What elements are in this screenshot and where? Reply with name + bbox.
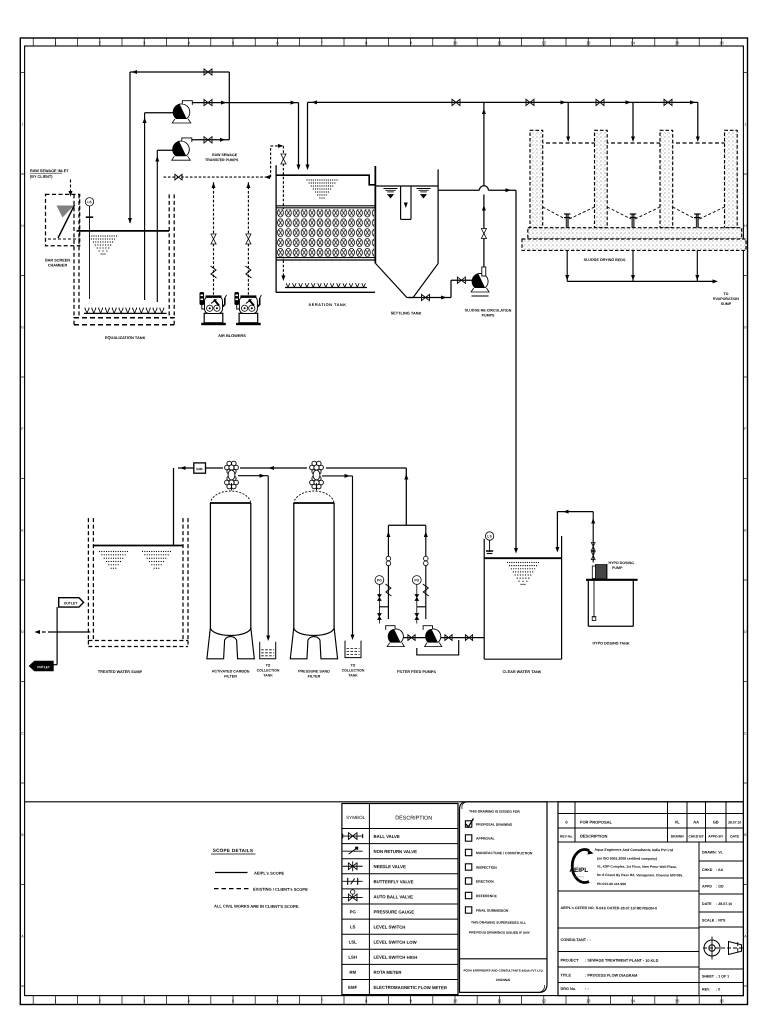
svg-text:PROJECT: PROJECT [560, 959, 579, 963]
svg-text:COLLECTION: COLLECTION [342, 668, 365, 672]
svg-text:TANK: TANK [348, 673, 358, 677]
svg-text:ELECTROMAGNETIC FLOW METER: ELECTROMAGNETIC FLOW METER [373, 985, 447, 990]
svg-text:AIR BLOWERS: AIR BLOWERS [218, 333, 246, 338]
svg-text:NEEDLE VALVE: NEEDLE VALVE [373, 864, 405, 869]
svg-text:RM: RM [349, 970, 356, 975]
svg-text:EQUALIZATION TANK: EQUALIZATION TANK [105, 335, 146, 340]
svg-text:H: H [21, 224, 24, 228]
svg-text:16: 16 [719, 998, 724, 1003]
svg-text:H: H [744, 224, 747, 228]
svg-text:(BY CLIENT): (BY CLIENT) [30, 175, 53, 179]
svg-text:PUMPS: PUMPS [482, 313, 495, 317]
svg-text:: GD: : GD [716, 885, 724, 889]
svg-text:AUTO BALL VALVE: AUTO BALL VALVE [373, 894, 413, 899]
svg-text:: AA: : AA [716, 868, 724, 872]
svg-text:THIS DRAWING SUPERSEDES ALL: THIS DRAWING SUPERSEDES ALL [471, 921, 526, 925]
svg-text:REFERENCE: REFERENCE [476, 894, 498, 898]
svg-text:J: J [744, 122, 746, 126]
svg-text:AEIPL: AEIPL [569, 867, 588, 874]
svg-text:HYPO DOSING: HYPO DOSING [608, 561, 634, 565]
svg-text:ACTIVATED CARBON: ACTIVATED CARBON [212, 669, 250, 673]
svg-text:TO: TO [266, 663, 271, 667]
svg-text:NON RETURN VALVE: NON RETURN VALVE [373, 849, 417, 854]
svg-text:THIS DRAWING IS ISSUED FOR: THIS DRAWING IS ISSUED FOR [469, 810, 520, 814]
svg-text:FINAL SUBMISSION: FINAL SUBMISSION [476, 909, 509, 913]
svg-text:CONSULTANT : -: CONSULTANT : - [560, 938, 591, 942]
svg-text:LEVEL SWITCH HIGH: LEVEL SWITCH HIGH [373, 955, 417, 960]
svg-text:28.07.10: 28.07.10 [728, 820, 741, 824]
svg-text:SCALE: SCALE [702, 919, 715, 923]
svg-text:APPD: APPD [702, 885, 712, 889]
svg-text:REV.: REV. [702, 988, 710, 992]
svg-text:DESCRIPTION: DESCRIPTION [395, 815, 432, 821]
svg-text:DATE: DATE [730, 834, 740, 838]
svg-text:Aqua Engineers And Consultants: Aqua Engineers And Consultants India Pvt… [594, 848, 673, 852]
svg-text:BUTTERFLY VALVE: BUTTERFLY VALVE [373, 879, 413, 884]
svg-text:D: D [744, 630, 747, 634]
svg-text:CHKD: CHKD [702, 868, 713, 872]
svg-text:RAW SEWAGE INLET: RAW SEWAGE INLET [30, 169, 69, 173]
svg-text:Ph:044-99 444 999: Ph:044-99 444 999 [597, 882, 626, 886]
svg-text:16: 16 [719, 40, 724, 45]
svg-text:: 0: : 0 [716, 988, 720, 992]
svg-text:CHENNAI: CHENNAI [496, 978, 511, 982]
svg-text:PREVIOUS DRAWINGS ISSUED IF AN: PREVIOUS DRAWINGS ISSUED IF ANY. [469, 931, 531, 935]
svg-text:DRAWN: DRAWN [671, 834, 684, 838]
svg-text:SLUDGE RE-CIRCULATION: SLUDGE RE-CIRCULATION [465, 308, 512, 312]
svg-text:HYPO DOSING TANK: HYPO DOSING TANK [592, 641, 629, 645]
svg-text:DATE: DATE [702, 902, 712, 906]
svg-text:PG: PG [377, 578, 382, 582]
svg-text:PUMP: PUMP [612, 566, 623, 570]
svg-text:FILTER FEED PUMPS: FILTER FEED PUMPS [397, 670, 436, 674]
svg-text:: NTS: : NTS [716, 919, 726, 923]
svg-text:AERATION TANK: AERATION TANK [308, 302, 346, 307]
svg-text:SYMBOL: SYMBOL [346, 815, 366, 820]
svg-text:G: G [21, 325, 24, 329]
svg-text:AQUA ENGINEERS AND CONSULTANTS: AQUA ENGINEERS AND CONSULTANTS INDIA PVT… [463, 968, 543, 972]
svg-text:EVAPORATION: EVAPORATION [713, 297, 739, 301]
svg-text:EXISTING / CLIENT's SCOPE: EXISTING / CLIENT's SCOPE [253, 887, 308, 892]
svg-text:TRANSFER PUMPS: TRANSFER PUMPS [205, 158, 239, 162]
svg-text:APPD BY: APPD BY [708, 834, 724, 838]
svg-text:12: 12 [542, 40, 547, 45]
svg-text:EMF: EMF [196, 467, 203, 471]
svg-text:14: 14 [630, 998, 635, 1003]
svg-text:C: C [21, 731, 24, 735]
svg-text:engineers: engineers [574, 875, 585, 878]
svg-text:ALL CIVIL WORKS ARE IN CLIENT': ALL CIVIL WORKS ARE IN CLIENT'S SCOPE. [214, 904, 299, 909]
svg-text:INSPECTION: INSPECTION [476, 866, 497, 870]
svg-text:BAR SCREEN: BAR SCREEN [45, 258, 70, 262]
svg-text:OUTLET: OUTLET [64, 601, 79, 605]
svg-text:APPROVAL: APPROVAL [476, 837, 495, 841]
svg-text:SUMP: SUMP [721, 302, 732, 306]
svg-text:LEVEL SWITCH: LEVEL SWITCH [373, 924, 405, 929]
svg-text:SCOPE DETAILS: SCOPE DETAILS [213, 848, 254, 853]
svg-text:SHEET: SHEET [702, 975, 715, 979]
svg-text:TITLE: TITLE [560, 974, 571, 978]
svg-text:GD: GD [713, 819, 719, 824]
svg-text:FILTER: FILTER [224, 674, 237, 678]
svg-text:: VL: : VL [716, 851, 724, 855]
svg-text:C: C [744, 731, 747, 735]
svg-text:FILTER: FILTER [308, 674, 321, 678]
svg-text:SLUDGE DRYING BEDS: SLUDGE DRYING BEDS [584, 258, 626, 262]
svg-text:: PROCESS FLOW DIAGRAM: : PROCESS FLOW DIAGRAM [585, 974, 637, 978]
svg-text:14: 14 [630, 40, 635, 45]
svg-text:TO: TO [351, 663, 356, 667]
svg-text:(an ISO 9001:2008 certified co: (an ISO 9001:2008 certified company) [597, 857, 657, 861]
svg-text:AEIPL's SCOPE: AEIPL's SCOPE [254, 871, 284, 876]
svg-text:SETTLING TANK: SETTLING TANK [391, 310, 422, 315]
svg-text:AA: AA [693, 819, 699, 824]
svg-text:DRG No.: DRG No. [560, 987, 576, 991]
svg-text:No 8 Grand By Pass Rd, Vanagar: No 8 Grand By Pass Rd, Vanagaram, Chenna… [597, 873, 683, 877]
svg-text:TO: TO [724, 292, 729, 296]
svg-text:PRESSURE GAUGE: PRESSURE GAUGE [373, 909, 414, 914]
svg-text:CHKD BY: CHKD BY [688, 834, 704, 838]
svg-text:LS: LS [487, 534, 492, 538]
svg-text:COLLECTION: COLLECTION [257, 668, 280, 672]
svg-text:LSL: LSL [349, 940, 358, 945]
svg-text:DRAWN: DRAWN [702, 851, 716, 855]
svg-text:LS: LS [87, 200, 92, 204]
svg-text:: SEWAGE TREATMENT PLANT - 10: : SEWAGE TREATMENT PLANT - 10 KLD [585, 959, 659, 963]
svg-text:BALL VALVE: BALL VALVE [373, 834, 399, 839]
svg-text:MANUFACTURE / CONSTRUCTION: MANUFACTURE / CONSTRUCTION [476, 851, 533, 855]
svg-text:LSH: LSH [348, 955, 357, 960]
svg-text:ERECTION: ERECTION [476, 880, 494, 884]
svg-text:CHAMBER: CHAMBER [48, 263, 68, 267]
svg-text:G: G [744, 325, 747, 329]
svg-text:EMF: EMF [348, 985, 357, 990]
svg-text:REV No.: REV No. [560, 834, 573, 838]
svg-text:RAW SEWAGE: RAW SEWAGE [212, 153, 238, 157]
svg-text:DESCRIPTION: DESCRIPTION [580, 834, 607, 839]
svg-text:PRESSURE SAND: PRESSURE SAND [298, 669, 330, 673]
svg-text:J: J [21, 122, 23, 126]
svg-text:AEIPL's OFFER NO: S-041/ DATED: AEIPL's OFFER NO: S-041/ DATED-28.07.10/… [560, 906, 656, 911]
svg-text:LEVEL SWITCH LOW: LEVEL SWITCH LOW [373, 940, 417, 945]
svg-text:TREATED WATER SUMP: TREATED WATER SUMP [98, 670, 143, 674]
svg-text:12: 12 [542, 998, 547, 1003]
svg-text:#1, KSP Complex, 1st Floor, Ne: #1, KSP Complex, 1st Floor, New Perur We… [597, 865, 677, 869]
svg-text:PG: PG [414, 578, 419, 582]
svg-text:LS: LS [350, 924, 356, 929]
svg-text:PROPOSAL DRAWING: PROPOSAL DRAWING [476, 823, 513, 827]
svg-text:TANK: TANK [263, 673, 273, 677]
svg-text:CLEAR WATER TANK: CLEAR WATER TANK [503, 670, 542, 674]
svg-text:: 28.07.10: : 28.07.10 [716, 902, 732, 906]
svg-text:: 1 OF 1: : 1 OF 1 [716, 975, 729, 979]
svg-text:PG: PG [350, 909, 357, 914]
svg-text:ROTA METER: ROTA METER [373, 970, 402, 975]
svg-text:D: D [21, 630, 24, 634]
svg-text:VL: VL [675, 819, 681, 824]
svg-text:OUTLET: OUTLET [37, 665, 50, 669]
svg-text:FOR PROPOSAL: FOR PROPOSAL [580, 820, 613, 825]
